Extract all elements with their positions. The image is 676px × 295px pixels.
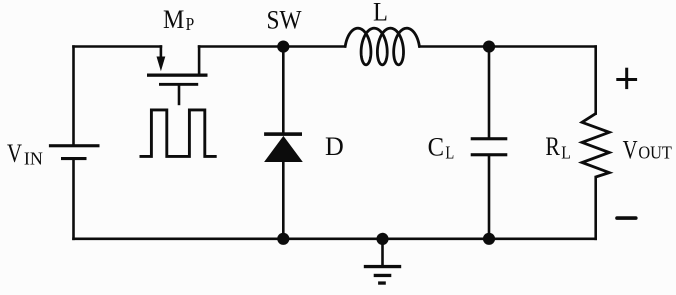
pulse waveform gate drive (140, 110, 217, 156)
plus sign output polarity (616, 78, 637, 81)
wire right rail lower (594, 177, 597, 239)
transistor Q1 M_P (161, 47, 199, 104)
wire diode anode to bottom rail (282, 162, 285, 239)
svg-text:L: L (373, 0, 388, 26)
diode D cathode bar (264, 132, 302, 136)
svg-text:L: L (445, 143, 454, 163)
wire ground stub (381, 239, 384, 265)
transistor channel bar (147, 74, 208, 77)
minus sign output polarity (617, 216, 636, 220)
node CL top junction dot (483, 41, 495, 53)
transistor gate bar (159, 83, 198, 86)
wire source lead (160, 47, 163, 60)
wire right rail upper (594, 47, 597, 114)
svg-text:IN: IN (24, 149, 43, 169)
svg-text:V: V (623, 135, 638, 164)
wire bottom rail (74, 238, 596, 241)
wire drain lead (198, 47, 201, 75)
wire CL node down to capacitor (488, 47, 491, 138)
resistor R_L zigzag (582, 114, 609, 177)
svg-text:V: V (7, 139, 22, 168)
wire SW node to diode (282, 47, 285, 133)
inductor L coil (345, 28, 419, 65)
ground symbol bar 1 (364, 265, 401, 268)
capacitor C_L plate top (471, 137, 508, 140)
wire top rail inductor to CL node to right corner (419, 45, 595, 48)
ground symbol bar 2 (374, 274, 392, 277)
wire top rail left segment (74, 45, 161, 48)
svg-text:L: L (561, 142, 571, 162)
battery V_IN long plate (49, 144, 100, 147)
node diode bottom junction dot (277, 233, 289, 245)
svg-text:C: C (428, 133, 444, 162)
wire capacitor to bottom rail (488, 156, 491, 239)
node SW junction dot (277, 41, 289, 53)
node CL bottom junction dot (483, 233, 495, 245)
svg-text:R: R (545, 132, 560, 161)
node ground junction dot (376, 233, 388, 245)
ground symbol bar 3 (378, 281, 386, 284)
wire top rail drain to SW to inductor (199, 45, 345, 48)
svg-text:OUT: OUT (638, 143, 672, 163)
svg-text:D: D (325, 132, 344, 161)
svg-text:M: M (163, 5, 184, 34)
wire left rail lower (72, 160, 75, 239)
transistor source arrowhead (157, 57, 166, 72)
wire gate lead (178, 86, 181, 104)
svg-text:SW: SW (267, 5, 302, 34)
battery V_IN short plate (61, 157, 87, 160)
svg-text:P: P (186, 14, 195, 34)
capacitor C_L plate bottom (471, 153, 508, 156)
wire left rail upper (72, 47, 75, 145)
diode D triangle (264, 136, 303, 162)
